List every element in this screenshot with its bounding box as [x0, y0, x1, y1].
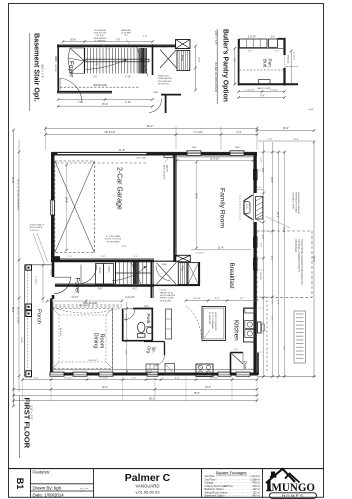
porch post 3 — [26, 311, 32, 317]
svg-text:fo_b_ow: fo_b_ow — [80, 488, 89, 490]
right extension lines from wall — [258, 151, 286, 153]
svg-text:13’-8 1/2”: 13’-8 1/2” — [210, 158, 220, 160]
garage bottom left block — [54, 256, 60, 261]
right vertical dim lines — [263, 142, 265, 377]
garage dashed slab rectangle with X — [55, 161, 95, 253]
svg-text:Pwdr.: Pwdr. — [146, 314, 151, 325]
fireplace hearth dashes — [239, 195, 241, 220]
butlers pantry bottom dim line 1 — [239, 91, 285, 93]
stair option pantry door diagonals — [160, 50, 177, 69]
svg-text:14’-8”: 14’-8” — [270, 177, 272, 183]
main pantry door diagonals — [157, 263, 177, 284]
features cell underline — [30, 483, 94, 485]
dining west wall — [50, 299, 53, 376]
svg-text:Breakfast: Breakfast — [228, 263, 235, 289]
svg-text:7’-10”: 7’-10” — [125, 101, 131, 104]
svg-text:Dining: Dining — [93, 333, 99, 349]
kitchen window right — [245, 309, 255, 314]
right top small dims — [258, 140, 315, 142]
svg-text:@ 8’-0” AFF: @ 8’-0” AFF — [147, 378, 158, 381]
porch post 1 — [26, 265, 32, 270]
svg-text:Room: Room — [99, 334, 105, 349]
main plan top extension lines — [45, 126, 47, 150]
powder sink — [146, 327, 152, 333]
stair option top wall — [57, 45, 176, 47]
house bottom wall — [50, 373, 259, 376]
svg-text:PROPOSED: PROPOSED — [294, 239, 296, 252]
stair option stair rail — [86, 59, 149, 62]
main plan top dim line segments — [46, 134, 258, 136]
svg-text:16’-0”: 16’-0” — [205, 387, 211, 389]
garage bottom wall — [52, 259, 155, 262]
svg-text:7’-2 1/2”: 7’-2 1/2” — [193, 130, 203, 134]
butlers pantry right wall door dash — [284, 55, 286, 68]
optional porch dashed outline — [257, 231, 312, 297]
right bottom wall extension line — [257, 376, 316, 378]
svg-text:3/16” = 1’-0”: 3/16” = 1’-0” — [30, 405, 34, 420]
hall beam dashed — [55, 304, 122, 306]
svg-text:Pan.: Pan. — [268, 59, 273, 68]
top wall window 2 — [230, 151, 244, 156]
svg-text:FIREPLACE W/ SLATE: FIREPLACE W/ SLATE — [294, 192, 297, 214]
svg-text:3’-0”: 3’-0” — [282, 346, 284, 351]
garage right / family left wall — [173, 155, 175, 262]
stair option pantry shelves — [177, 51, 190, 71]
Mungo logo numeral one — [266, 479, 272, 491]
title block divider B1 — [30, 469, 32, 498]
stair option right dim line — [195, 46, 197, 90]
fireplace firebox — [244, 202, 250, 214]
svg-text:UNFIN: UNFIN — [98, 266, 101, 274]
main fridge box — [188, 263, 199, 285]
main pantry shelves — [178, 263, 187, 285]
fireplace top dim — [256, 189, 264, 191]
porch deck edge lines — [24, 265, 26, 377]
pantry south wall — [154, 284, 200, 286]
stair option window with X — [176, 40, 191, 49]
svg-text:16/7 OHD: 16/7 OHD — [136, 158, 146, 160]
svg-text:7’-2”: 7’-2” — [93, 77, 98, 79]
svg-text:PROCEEDING: PROCEEDING — [158, 81, 172, 83]
family room right wall upper — [254, 152, 257, 193]
svg-text:2868 OD: 2868 OD — [287, 55, 289, 64]
main stair compressed treads — [133, 262, 135, 284]
butlers pantry dashed line — [240, 69, 285, 71]
svg-text:8’-1 1/2”: 8’-1 1/2” — [64, 378, 72, 380]
svg-text:Basement Stair Opt.: Basement Stair Opt. — [33, 33, 42, 102]
stair option compressed treads — [138, 48, 140, 74]
svg-text:6’-0”: 6’-0” — [34, 378, 38, 380]
svg-text:28’-0 1/2”: 28’-0 1/2” — [105, 130, 116, 134]
svg-text:Sp.: Sp. — [151, 347, 156, 353]
house top wall — [52, 152, 258, 155]
stair option dim line top — [63, 41, 153, 43]
kitchen west wall stub — [198, 262, 200, 285]
wall continuation to pantry — [154, 260, 176, 262]
svg-text:Porch: Porch — [36, 309, 42, 324]
svg-text:2668: 2668 — [162, 264, 168, 266]
svg-text:4’-2”: 4’-2” — [133, 289, 138, 291]
garage interior dim line — [66, 165, 68, 250]
svg-text:36’-2”: 36’-2” — [147, 124, 154, 128]
stair closet arc — [81, 265, 97, 284]
svg-text:7’-10”: 7’-10” — [125, 77, 131, 79]
bottom dim line 2 — [14, 388, 258, 390]
svg-text:2’-0”: 2’-0” — [268, 139, 273, 141]
svg-text:Butler’s Pantry Option: Butler’s Pantry Option — [222, 29, 229, 102]
right dim ticks — [262, 151, 265, 154]
svg-text:2’-4 1/2”: 2’-4 1/2” — [196, 253, 204, 255]
garage left wall — [51, 152, 54, 262]
svg-text:9’-0”: 9’-0” — [270, 256, 272, 261]
garage door stripe in top wall — [58, 153, 147, 155]
svg-text:HOMES: HOMES — [282, 494, 304, 499]
svg-text:2’-0”: 2’-0” — [275, 51, 280, 53]
svg-text:24’-8”: 24’-8” — [276, 212, 278, 218]
left dim ticks — [12, 129, 15, 132]
svg-text:3050 SH: 3050 SH — [259, 272, 261, 280]
svg-text:8’-0”: 8’-0” — [197, 58, 199, 63]
main stair up arrow curved — [112, 266, 147, 281]
dining top dim line — [47, 300, 122, 302]
svg-text:2-4 1/2”: 2-4 1/2” — [193, 298, 201, 300]
stair hall south wall — [55, 284, 154, 286]
fireplace leader line — [266, 217, 290, 229]
svg-text:2668: 2668 — [54, 56, 57, 62]
svg-text:13’-10 1/2”: 13’-10 1/2” — [79, 305, 90, 307]
svg-text:SVCTSL: SVCTSL — [54, 64, 56, 73]
svg-text:30’-2”: 30’-2” — [282, 227, 284, 233]
kitchen sink — [245, 321, 255, 329]
butlers pantry right wall — [283, 38, 285, 55]
svg-text:36X13A AGB: 36X13A AGB — [93, 84, 107, 87]
svg-text:7’-1 1/2”: 7’-1 1/2” — [34, 276, 36, 284]
basement stair option title underline — [29, 33, 31, 111]
svg-text:VERIFY CLEAR: VERIFY CLEAR — [160, 297, 174, 300]
bottom dim line 4 — [14, 400, 258, 402]
svg-text:11’-4”: 11’-4” — [218, 248, 224, 250]
fireplace trapezoid inside — [244, 195, 253, 220]
svg-text:2868: 2868 — [192, 147, 198, 149]
powder room walls — [123, 309, 153, 341]
butlers pantry left wall — [238, 39, 240, 86]
stair option foyer door arc — [60, 78, 82, 103]
svg-text:SLOPE TO DOOR: SLOPE TO DOOR — [105, 239, 122, 241]
left vertical dim lines — [13, 130, 15, 406]
svg-text:4’-2”: 4’-2” — [132, 378, 136, 380]
svg-text:6’-1 1/2”: 6’-1 1/2” — [100, 378, 108, 380]
HOMES oval — [270, 493, 317, 499]
toilet — [137, 334, 145, 338]
svg-text:2’-0”: 2’-0” — [257, 187, 261, 189]
svg-text:2’-8”: 2’-8” — [143, 36, 148, 38]
stair option beam dashed — [60, 86, 140, 88]
svg-text:SGS: SGS — [309, 109, 314, 111]
porch post 2 — [26, 304, 32, 310]
breakfast window right — [254, 258, 258, 270]
svg-text:TYP: TYP — [124, 35, 129, 37]
stair option up arrow curved — [86, 59, 127, 70]
dining tray ceiling dashed rect — [53, 309, 113, 369]
svg-text:11’-8 1/2”: 11’-8 1/2” — [59, 327, 61, 336]
svg-text:@ 36” AFF: @ 36” AFF — [121, 32, 131, 35]
title block divider sqft/logo — [262, 469, 264, 498]
family room inner wall line — [177, 156, 254, 158]
svg-text:W/ BUILDER: W/ BUILDER — [160, 300, 172, 302]
stair option bottom dim line — [58, 99, 152, 101]
svg-text:v.01.06.00.03: v.01.06.00.03 — [136, 489, 161, 494]
kitchen archway dashes — [186, 306, 202, 342]
svg-text:26’-2”: 26’-2” — [11, 307, 14, 313]
svg-text:Org.: Org. — [147, 346, 152, 354]
svg-text:Pan: Pan — [180, 55, 184, 61]
svg-text:16’-8”: 16’-8” — [70, 38, 76, 41]
family room dim rotated — [196, 162, 198, 248]
stair option note leaders — [100, 44, 109, 51]
hall door arc to kitchen — [156, 266, 170, 281]
right note box — [294, 311, 306, 363]
svg-text:9’-8”: 9’-8” — [98, 289, 103, 291]
svg-text:HANDRAIL: HANDRAIL — [121, 29, 132, 32]
right top dim line — [257, 130, 314, 132]
stair storage cells — [96, 264, 104, 285]
svg-text:5’-0 1/2”: 5’-0 1/2” — [125, 314, 127, 322]
svg-text:Date: 1/09/2014: Date: 1/09/2014 — [33, 493, 65, 498]
svg-text:15’-0”: 15’-0” — [102, 103, 108, 106]
svg-text:5’-4”: 5’-4” — [261, 168, 263, 173]
svg-text:13’-10”: 13’-10” — [71, 297, 78, 299]
svg-text:36’-8”: 36’-8” — [312, 256, 314, 262]
svg-text:VERIFY W/ BUILDER: VERIFY W/ BUILDER — [214, 312, 216, 331]
bottom dim line 3 — [14, 394, 258, 396]
main stair rail line — [116, 272, 152, 274]
butlers pantry top right wall segment — [278, 38, 286, 40]
garage west wall window — [51, 200, 55, 215]
svg-text:2’-6”: 2’-6” — [260, 158, 262, 162]
opt space side cabinet — [166, 309, 172, 339]
svg-text:2’-8”: 2’-8” — [261, 235, 263, 240]
svg-text:TYP U.N.O.: TYP U.N.O. — [30, 230, 40, 232]
stair option winder treads — [68, 48, 85, 73]
svg-text:IN LIEU OF ORIG.SPACE: IN LIEU OF ORIG.SPACE — [214, 62, 218, 92]
svg-text:55’-2”: 55’-2” — [149, 398, 155, 400]
fireplace chase hatched — [256, 197, 263, 220]
svg-text:7’-2”: 7’-2” — [68, 256, 73, 258]
svg-text:21’-8”: 21’-8” — [11, 177, 14, 183]
svg-text:2-606: 2-606 — [20, 337, 22, 343]
range — [196, 364, 213, 377]
svg-text:3068: 3068 — [49, 270, 51, 276]
top wall window 1 — [187, 151, 201, 156]
svg-text:UP: UP — [95, 64, 99, 66]
butlers pantry right dim line — [290, 51, 292, 84]
svg-text:2-Car Garage: 2-Car Garage — [116, 167, 123, 210]
kitchen right counter — [244, 308, 256, 342]
dining opening dashed curve — [53, 308, 121, 314]
dining east boundary lines — [111, 308, 113, 372]
opt space door arc — [155, 355, 165, 366]
fireplace flanking window upper — [254, 170, 258, 180]
kitchen island bottom diagonal — [204, 330, 210, 339]
svg-text:VERIFY ALL: VERIFY ALL — [158, 75, 170, 78]
svg-text:Butl.: Butl. — [263, 59, 268, 68]
main stair treads — [115, 262, 117, 284]
svg-text:5’-10 1/2”: 5’-10 1/2” — [245, 89, 255, 91]
butlers pantry top interior line — [239, 47, 285, 49]
svg-text:3/16” = 1’-0”: 3/16” = 1’-0” — [41, 64, 45, 78]
stair option bottom dim line 2 — [58, 105, 152, 107]
svg-text:7’-8”: 7’-8” — [232, 58, 234, 63]
stair option break line — [136, 46, 148, 76]
main pantry window X box — [176, 255, 191, 261]
porch post bottom — [26, 371, 32, 377]
svg-text:18’-2”: 18’-2” — [194, 193, 197, 199]
first floor underline — [18, 396, 20, 458]
svg-text:36” DV: 36” DV — [245, 204, 247, 210]
svg-text:3’-0”: 3’-0” — [234, 349, 239, 351]
stair option stair treads — [84, 48, 86, 74]
Mungo logo chimney — [271, 472, 275, 478]
front door arc — [54, 277, 71, 294]
butlers pantry title underline — [216, 29, 218, 104]
svg-text:Family Room: Family Room — [219, 188, 226, 228]
bottom extension lines — [22, 377, 24, 401]
svg-text:ABOVE: ABOVE — [165, 165, 168, 173]
kitchen window bump outside — [258, 322, 262, 333]
svg-text:5’-4 1/2”: 5’-4 1/2” — [270, 89, 278, 91]
svg-text:21’-8”: 21’-8” — [119, 149, 125, 152]
svg-text:2X6 EXT WALLS: 2X6 EXT WALLS — [30, 224, 45, 227]
svg-text:6’-4”: 6’-4” — [175, 378, 179, 380]
title block divider palmer/sqft — [201, 469, 203, 498]
svg-text:3’-4”: 3’-4” — [236, 130, 241, 134]
svg-text:15’-2”: 15’-2” — [283, 127, 289, 130]
main stair right wall — [151, 262, 153, 298]
stair option lower wall corner — [161, 95, 181, 113]
bottom wall openings — [50, 372, 64, 376]
svg-text:2-D 4’3”: 2-D 4’3” — [248, 37, 256, 39]
svg-text:7’-6 1/2”: 7’-6 1/2” — [159, 290, 167, 292]
svg-text:9’-0”: 9’-0” — [270, 316, 272, 321]
svg-text:7’-8”: 7’-8” — [260, 95, 265, 97]
svg-text:13’-8”: 13’-8” — [293, 139, 299, 141]
svg-text:Pan.: Pan. — [243, 361, 248, 370]
drawn-by cell underline — [30, 490, 94, 492]
kitchen pantry walls — [231, 353, 259, 376]
family room right wall lower — [254, 222, 257, 376]
svg-text:W/ 6X6 WWM: W/ 6X6 WWM — [107, 241, 120, 243]
main stair break line — [130, 260, 142, 286]
svg-text:VANGUARD: VANGUARD — [135, 484, 159, 489]
svg-text:SURROUND & HEARTH: SURROUND & HEARTH — [297, 192, 300, 215]
opt space closet walls — [144, 342, 165, 356]
main plan top dim line overall — [46, 128, 258, 130]
svg-text:5’-0”: 5’-0” — [125, 350, 127, 354]
svg-text:W/ OPTION: W/ OPTION — [158, 84, 169, 86]
svg-text:36X13A AGB: 36X13A AGB — [94, 29, 106, 32]
kitchen pantry door diagonal — [232, 354, 244, 365]
svg-text:Pan: Pan — [181, 266, 185, 271]
powder door arc — [124, 309, 135, 320]
dining interior diagonal hatch lines — [53, 309, 60, 316]
svg-text:Features:: Features: — [33, 470, 51, 475]
svg-text:B1: B1 — [15, 478, 25, 490]
svg-text:Drawn By: kgb: Drawn By: kgb — [33, 485, 62, 490]
svg-text:7’-8”: 7’-8” — [101, 256, 106, 258]
butlers pantry landing detail — [259, 80, 271, 85]
stair option left wall — [57, 45, 59, 91]
title block divider features/palmer — [93, 469, 95, 498]
svg-text:@ GARAGE: @ GARAGE — [94, 39, 106, 42]
svg-text:3’-6”: 3’-6” — [215, 298, 220, 300]
svg-text:6’-7 1/2”: 6’-7 1/2” — [210, 378, 218, 380]
svg-text:3/16” = 1’-0”: 3/16” = 1’-0” — [214, 31, 218, 45]
svg-text:20’-0”: 20’-0” — [102, 387, 108, 389]
butlers pantry right extension line — [285, 66, 298, 68]
svg-text:19’-8”: 19’-8” — [64, 197, 67, 203]
butlers pantry cabinet row — [240, 39, 268, 48]
svg-text:10’-8 1/2”: 10’-8 1/2” — [88, 360, 98, 362]
svg-text:OPTIONAL COVERED PORCH: OPTIONAL COVERED PORCH — [297, 239, 300, 272]
svg-text:PANTRY W/ (5): PANTRY W/ (5) — [160, 292, 174, 295]
svg-text:(36) DIRECT VENT: (36) DIRECT VENT — [292, 192, 294, 210]
svg-text:5’-7”: 5’-7” — [240, 298, 245, 300]
svg-text:Palmer C: Palmer C — [125, 472, 171, 484]
interior dim string powder — [126, 302, 128, 372]
kitchen top dim line — [186, 300, 257, 302]
svg-text:Square Footages:: Square Footages: — [216, 470, 248, 475]
svg-text:ON OPTIONAL SCREEN PORCH (SEE: ON OPTIONAL SCREEN PORCH (SEE SO) — [300, 239, 303, 285]
svg-text:847 sf: 847 sf — [252, 494, 259, 498]
svg-text:DIMS BEFORE: DIMS BEFORE — [158, 78, 172, 80]
svg-text:W/ 12” OVERHANG: W/ 12” OVERHANG — [211, 312, 214, 329]
svg-text:7’-8”: 7’-8” — [116, 38, 121, 41]
washer dryer box — [146, 364, 158, 374]
svg-text:7’-2”: 7’-2” — [78, 101, 83, 104]
svg-text:FIRE RATING: FIRE RATING — [94, 37, 107, 40]
svg-text:2-O: 2-O — [271, 37, 275, 39]
svg-text:8’-0”: 8’-0” — [248, 51, 253, 53]
porch interior dim string — [42, 265, 44, 303]
kitchen island — [202, 307, 226, 341]
left note leader lines — [37, 233, 48, 262]
svg-text:5’-4 1/2”: 5’-4 1/2” — [293, 52, 295, 60]
stair option corner door arc — [149, 99, 162, 113]
svg-text:4” CONC SLAB: 4” CONC SLAB — [106, 235, 121, 238]
svg-text:36’-0”: 36’-0” — [194, 393, 200, 395]
Mungo Homes logo roofline — [266, 469, 295, 483]
svg-text:16’-0”: 16’-0” — [121, 246, 127, 248]
svg-text:42” HIGH BAR: 42” HIGH BAR — [208, 312, 211, 325]
butlers pantry bottom wall — [239, 83, 298, 85]
stair option lower wall A — [57, 91, 112, 93]
stair option stair right wall — [152, 45, 154, 75]
svg-text:2’-1”: 2’-1” — [134, 256, 139, 258]
svg-text:Kitchen: Kitchen — [232, 320, 239, 341]
porch slab dashed line lower — [266, 300, 268, 372]
svg-text:2’-0”: 2’-0” — [248, 369, 253, 371]
porch top boundary line — [25, 264, 53, 266]
svg-text:2668: 2668 — [144, 306, 150, 308]
svg-text:48-10 1/2” W SQL CHEDRWOO: 48-10 1/2” W SQL CHEDRWOO — [17, 179, 19, 211]
bottom dim line 1 — [23, 379, 258, 381]
svg-text:Basement Option: Basement Option — [205, 494, 226, 498]
svg-text:34’-4 1/2” SGSW: 34’-4 1/2” SGSW — [17, 307, 19, 324]
svg-text:3’-4”: 3’-4” — [260, 243, 262, 247]
foyer west wall — [52, 262, 55, 277]
svg-text:ATTIC ACCESS: ATTIC ACCESS — [163, 165, 166, 180]
attic access rect — [164, 153, 173, 158]
